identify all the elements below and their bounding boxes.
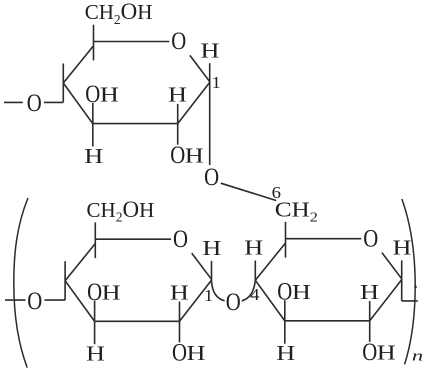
ring A C2 vertical (H/OH ticks): [177, 104, 179, 145]
ring B left bond dash (chain continues through bracket): [5, 299, 26, 301]
ring A bond C1-C2: [178, 82, 210, 123]
svg-text:H: H: [168, 84, 187, 107]
right repeat-unit parenthesis: [402, 199, 415, 364]
svg-text:CH2OH: CH2OH: [87, 197, 155, 225]
svg-text:O: O: [27, 287, 42, 314]
svg-text:H: H: [377, 342, 396, 365]
ring C top edge C5-O: [286, 238, 362, 240]
svg-text:1: 1: [204, 286, 213, 305]
ring B C3 vertical (OH/H ticks): [94, 301, 96, 345]
ring A C1 vertical (H tick + bond to bridging O): [209, 63, 211, 165]
svg-text:H: H: [393, 237, 412, 260]
ring B bond C1-C2: [180, 280, 212, 321]
svg-text:H: H: [201, 40, 220, 63]
svg-text:O: O: [85, 80, 100, 107]
ring B bond O-C4: [45, 299, 66, 301]
ring B C4 vertical: [64, 261, 66, 300]
alpha-1,4 glycosidic linkage B to C: [212, 280, 260, 315]
ring A bottom edge C3-C2: [93, 123, 178, 125]
ring C bond C1-C2: [370, 280, 402, 321]
ring C C1 vertical (H tick + bond to bracket): [401, 260, 403, 301]
svg-text:H: H: [86, 343, 105, 366]
ring C: lower-right glucose unit: [244, 198, 418, 365]
ring C C5 vertical (CH2 bond + H tick): [285, 222, 287, 258]
ring B: lower-left glucose unit: [5, 197, 221, 366]
ring C bond C3-C4: [255, 280, 284, 321]
ring C C4 vertical tick (H bond): [254, 261, 256, 281]
svg-text:H: H: [170, 282, 189, 305]
curved bond C1(B) to bridging O: [212, 281, 225, 301]
ring B C5 vertical (CH2 bond + H tick): [94, 222, 96, 258]
ring A C4 vertical: [62, 64, 64, 103]
curved bond bridging O to C4(C): [242, 280, 256, 301]
svg-text:CH2: CH2: [275, 198, 318, 225]
ring A left bond dash (chain continues): [4, 101, 23, 103]
ring B OH on C3: [87, 278, 120, 305]
ring C OH on C2: [362, 338, 395, 365]
svg-text:O: O: [87, 278, 102, 305]
ring A bond O-C4: [44, 101, 64, 103]
alpha-1,6 glycosidic linkage A to C: [204, 163, 281, 201]
svg-text:H: H: [360, 281, 379, 304]
svg-text:H: H: [185, 145, 204, 168]
svg-text:O: O: [226, 288, 241, 315]
ring A C5 vertical (CH2 bond + H tick): [93, 25, 95, 61]
svg-text:O: O: [362, 338, 377, 365]
svg-text:H: H: [187, 342, 206, 365]
ring C C2 vertical (H/OH ticks): [369, 301, 371, 342]
ring A: upper glucose unit: [4, 0, 221, 168]
ring A OH on C2: [170, 141, 203, 168]
ring B bottom edge C3-C2: [95, 320, 180, 322]
ring A top edge C5-O: [94, 41, 170, 43]
ring C C3 vertical (OH/H ticks): [284, 300, 286, 344]
svg-text:1: 1: [212, 73, 221, 92]
small dot on right parenthesis: [414, 286, 417, 289]
ring C bond C4-C5: [255, 243, 285, 280]
svg-text:n: n: [412, 348, 423, 364]
svg-text:H: H: [202, 237, 221, 260]
ring C bottom edge C3-C2: [285, 320, 370, 322]
svg-text:O: O: [363, 225, 378, 252]
svg-text:O: O: [173, 225, 188, 252]
ring B bond C3-C4: [65, 281, 95, 322]
ring C bond C1 to right bracket: [402, 300, 418, 302]
svg-text:O: O: [277, 278, 292, 305]
bond O to C6 of ring C: [221, 183, 276, 200]
ring A bond C3-C4: [63, 83, 93, 124]
svg-text:H: H: [100, 84, 119, 107]
svg-text:O: O: [172, 339, 187, 366]
svg-text:4: 4: [250, 285, 259, 304]
svg-text:H: H: [276, 342, 295, 365]
ring B top edge C5-O: [95, 238, 171, 240]
svg-text:O: O: [204, 163, 219, 190]
ring C bond O-C1: [382, 253, 402, 279]
ring C OH on C3: [277, 278, 310, 305]
ring A C3 vertical (OH/H ticks): [92, 103, 94, 147]
ring B bond O-C1: [192, 253, 212, 279]
svg-text:H: H: [244, 237, 263, 260]
left repeat-unit parenthesis: [14, 198, 28, 368]
ring B C2 vertical (H/OH ticks): [179, 302, 181, 343]
ring A OH on C3: [85, 80, 118, 107]
svg-text:H: H: [84, 145, 103, 168]
ring B OH on C2: [172, 339, 205, 366]
svg-text:H: H: [292, 281, 311, 304]
ring B C1 vertical (H tick): [211, 261, 213, 281]
ring A bond C4-C5: [63, 46, 93, 83]
svg-text:CH2OH: CH2OH: [85, 0, 153, 27]
svg-text:O: O: [171, 27, 186, 54]
svg-text:O: O: [170, 141, 185, 168]
svg-text:H: H: [102, 282, 121, 305]
svg-text:O: O: [27, 89, 42, 116]
ring B bond C4-C5: [65, 244, 95, 281]
ring A bond O-C1: [190, 55, 210, 81]
